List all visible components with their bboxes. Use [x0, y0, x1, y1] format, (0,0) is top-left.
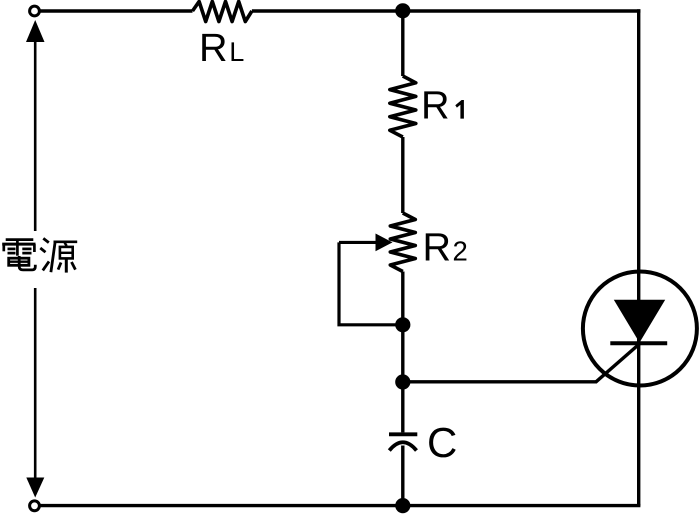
- potentiometer R2: [390, 213, 415, 272]
- wire center: top node to R1: [401, 11, 404, 76]
- node bottom: [395, 498, 410, 513]
- wire node A to node B: [401, 325, 404, 382]
- terminal top-left: [30, 6, 40, 16]
- wire gate diagonal: [596, 343, 641, 382]
- wire gate horizontal: [403, 380, 597, 383]
- thyristor anode triangle: [614, 300, 665, 343]
- label R1: [424, 91, 447, 118]
- source arrow up head: [26, 20, 45, 42]
- terminal bottom-left: [30, 501, 40, 511]
- label DENGEN kanji GEN: [40, 238, 77, 272]
- wire R2 to node A: [401, 272, 404, 325]
- thyristor cathode bar: [610, 341, 667, 345]
- wire wiper feedback loop: [339, 242, 403, 324]
- node top junction: [395, 3, 410, 18]
- wire node B to capacitor: [401, 382, 404, 432]
- label RL: [202, 34, 225, 61]
- label DENGEN kanji DEN: [2, 240, 35, 270]
- wiper arrow head R2: [376, 234, 393, 252]
- node A below R2: [395, 317, 410, 332]
- wire capacitor to bottom: [401, 446, 404, 506]
- capacitor C top plate: [389, 432, 417, 436]
- wire top left segment: [40, 9, 193, 12]
- thyristor SCR circle: [583, 272, 697, 386]
- source arrow down head: [26, 478, 44, 498]
- resistor R1: [390, 76, 416, 137]
- wire R1 to R2: [401, 137, 404, 213]
- resistor RL: [193, 2, 252, 22]
- wire right side: [637, 9, 640, 505]
- node B gate junction: [395, 374, 410, 389]
- capacitor C bottom plate: [389, 442, 416, 450]
- wire top right segment: [252, 9, 641, 12]
- source arrow down line: [34, 288, 37, 479]
- label C: [429, 428, 456, 458]
- wire wiper arrow lead: [339, 241, 378, 244]
- source arrow up line: [34, 40, 37, 231]
- wire bottom: [40, 504, 640, 507]
- label R2: [426, 233, 449, 260]
